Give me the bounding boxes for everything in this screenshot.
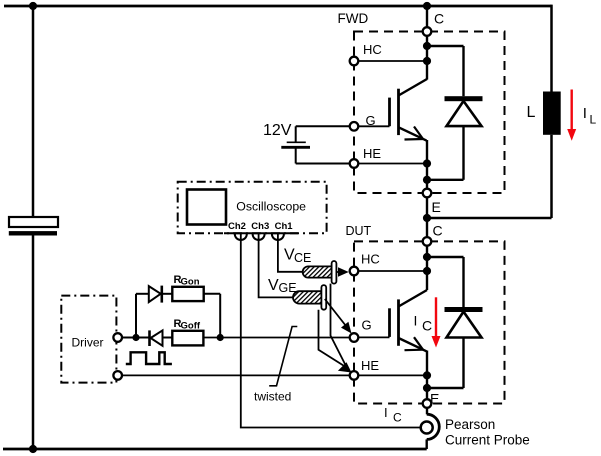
svg-text:C: C: [393, 411, 402, 425]
svg-text:twisted: twisted: [254, 390, 291, 404]
wire VGE reference lead to HE: [319, 310, 346, 367]
capacitor DC-link bottom plate: [9, 231, 57, 235]
svg-text:Ch1: Ch1: [275, 221, 294, 232]
connector Ch1: [272, 234, 284, 240]
svg-text:L: L: [527, 104, 536, 121]
wire Ch2 to Pearson probe: [241, 234, 420, 428]
Pearson probe arc: [427, 414, 440, 439]
IGBT FWD: [390, 79, 428, 141]
arrowhead at HE: [338, 362, 352, 372]
svg-text:C: C: [433, 223, 443, 239]
scope box bottom solid segment: [224, 232, 298, 234]
diode Don: [149, 286, 161, 302]
wire DUT HE link: [354, 374, 427, 376]
wire right rail lower: [550, 135, 553, 218]
terminal circles: [113, 27, 431, 408]
wire DUT HC link: [354, 270, 427, 272]
Pearson probe ring: [421, 422, 433, 434]
IGBT DUT: [390, 290, 428, 351]
probe VCE arrow to HC: [336, 271, 340, 273]
probe VCE flange: [332, 261, 337, 284]
svg-text:Goff: Goff: [181, 321, 201, 332]
diode FWD freewheel: [427, 46, 483, 180]
svg-text:V: V: [268, 277, 279, 294]
connector Ch3: [253, 234, 265, 240]
DUT module dashed box: [354, 241, 505, 403]
svg-text:GE: GE: [279, 281, 297, 295]
svg-text:C: C: [434, 11, 444, 27]
svg-text:Ch3: Ch3: [251, 221, 269, 232]
wire FWD HE link: [354, 163, 427, 165]
wire gate drive to DUT G: [203, 337, 354, 339]
battery 12V: [281, 126, 354, 163]
wire left bus vertical upper: [32, 6, 35, 217]
wire load connection to phase node: [427, 217, 552, 220]
svg-text:I: I: [583, 105, 587, 122]
wire left bus vertical lower: [32, 236, 35, 450]
current arrow IC: [432, 297, 441, 347]
probe VGE body: [293, 291, 326, 303]
twisted callout: [269, 327, 297, 386]
capacitor DC-link top plate: [9, 217, 58, 227]
svg-text:E: E: [432, 199, 441, 215]
current arrow IL: [567, 90, 576, 141]
wire VGE probe arrow to G: [325, 299, 348, 329]
svg-text:I: I: [384, 405, 388, 420]
inductor L body: [543, 92, 561, 135]
wire driver gate output: [122, 337, 149, 339]
wire Pearson to bottom rail: [426, 439, 428, 449]
wire FWD gate lead: [354, 125, 390, 127]
driver box: [61, 296, 116, 383]
wire DUT gate lead: [354, 336, 390, 338]
probe VGE flange: [321, 285, 326, 310]
svg-text:L: L: [590, 113, 597, 127]
wire top DC rail: [4, 5, 552, 8]
svg-text:Ch2: Ch2: [228, 221, 246, 232]
wire driver emitter return to DUT HE: [122, 374, 354, 376]
svg-text:HC: HC: [361, 252, 380, 267]
diode DUT freewheel: [427, 257, 483, 388]
diode Doff: [148, 330, 151, 346]
svg-text:Pearson: Pearson: [445, 417, 495, 432]
wire Ch3 to VGE probe: [259, 234, 293, 297]
svg-text:G: G: [362, 318, 372, 333]
wire RGon branch riser: [135, 294, 137, 338]
svg-text:12V: 12V: [263, 122, 292, 139]
resistor RGoff: [172, 331, 203, 346]
connector Ch2: [235, 234, 247, 240]
wire RGon to drop: [204, 293, 221, 295]
svg-text:HE: HE: [363, 146, 381, 161]
svg-text:Driver: Driver: [72, 336, 104, 350]
pulse waveform symbol: [126, 352, 172, 364]
svg-text:Oscilloscope: Oscilloscope: [236, 200, 306, 214]
svg-text:CE: CE: [294, 251, 311, 265]
svg-text:FWD: FWD: [338, 11, 369, 26]
wire VCE reference lead to HE: [331, 284, 347, 366]
wire bottom rail: [3, 448, 427, 451]
svg-text:DUT: DUT: [346, 224, 372, 238]
svg-text:Current Probe: Current Probe: [445, 433, 530, 448]
wire phase leg vertical segments: [426, 6, 428, 27]
oscilloscope box: [178, 182, 327, 234]
svg-text:Gon: Gon: [181, 277, 200, 288]
oscilloscope screen: [187, 190, 226, 225]
svg-text:HE: HE: [361, 358, 379, 373]
wire RGon branch top: [136, 293, 149, 295]
probe VCE body: [303, 266, 335, 277]
wire Ch1 to VCE probe: [278, 234, 303, 272]
wire right rail upper: [550, 5, 553, 92]
svg-text:G: G: [366, 113, 376, 128]
FWD module dashed box: [354, 32, 505, 194]
wire FWD HC link: [354, 60, 427, 62]
resistor RGon: [172, 287, 203, 301]
svg-text:HC: HC: [363, 42, 382, 57]
svg-text:C: C: [422, 318, 432, 334]
svg-text:I: I: [414, 313, 418, 329]
svg-text:E: E: [430, 391, 439, 407]
